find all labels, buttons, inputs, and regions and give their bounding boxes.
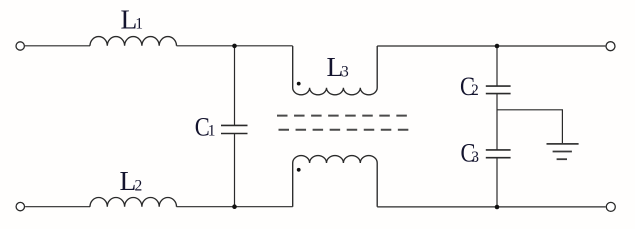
svg-text:1: 1: [208, 123, 216, 140]
svg-text:2: 2: [135, 177, 143, 194]
svg-text:3: 3: [471, 149, 479, 166]
svg-text:1: 1: [135, 16, 143, 33]
svg-text:3: 3: [341, 63, 349, 80]
svg-text:2: 2: [471, 82, 479, 99]
